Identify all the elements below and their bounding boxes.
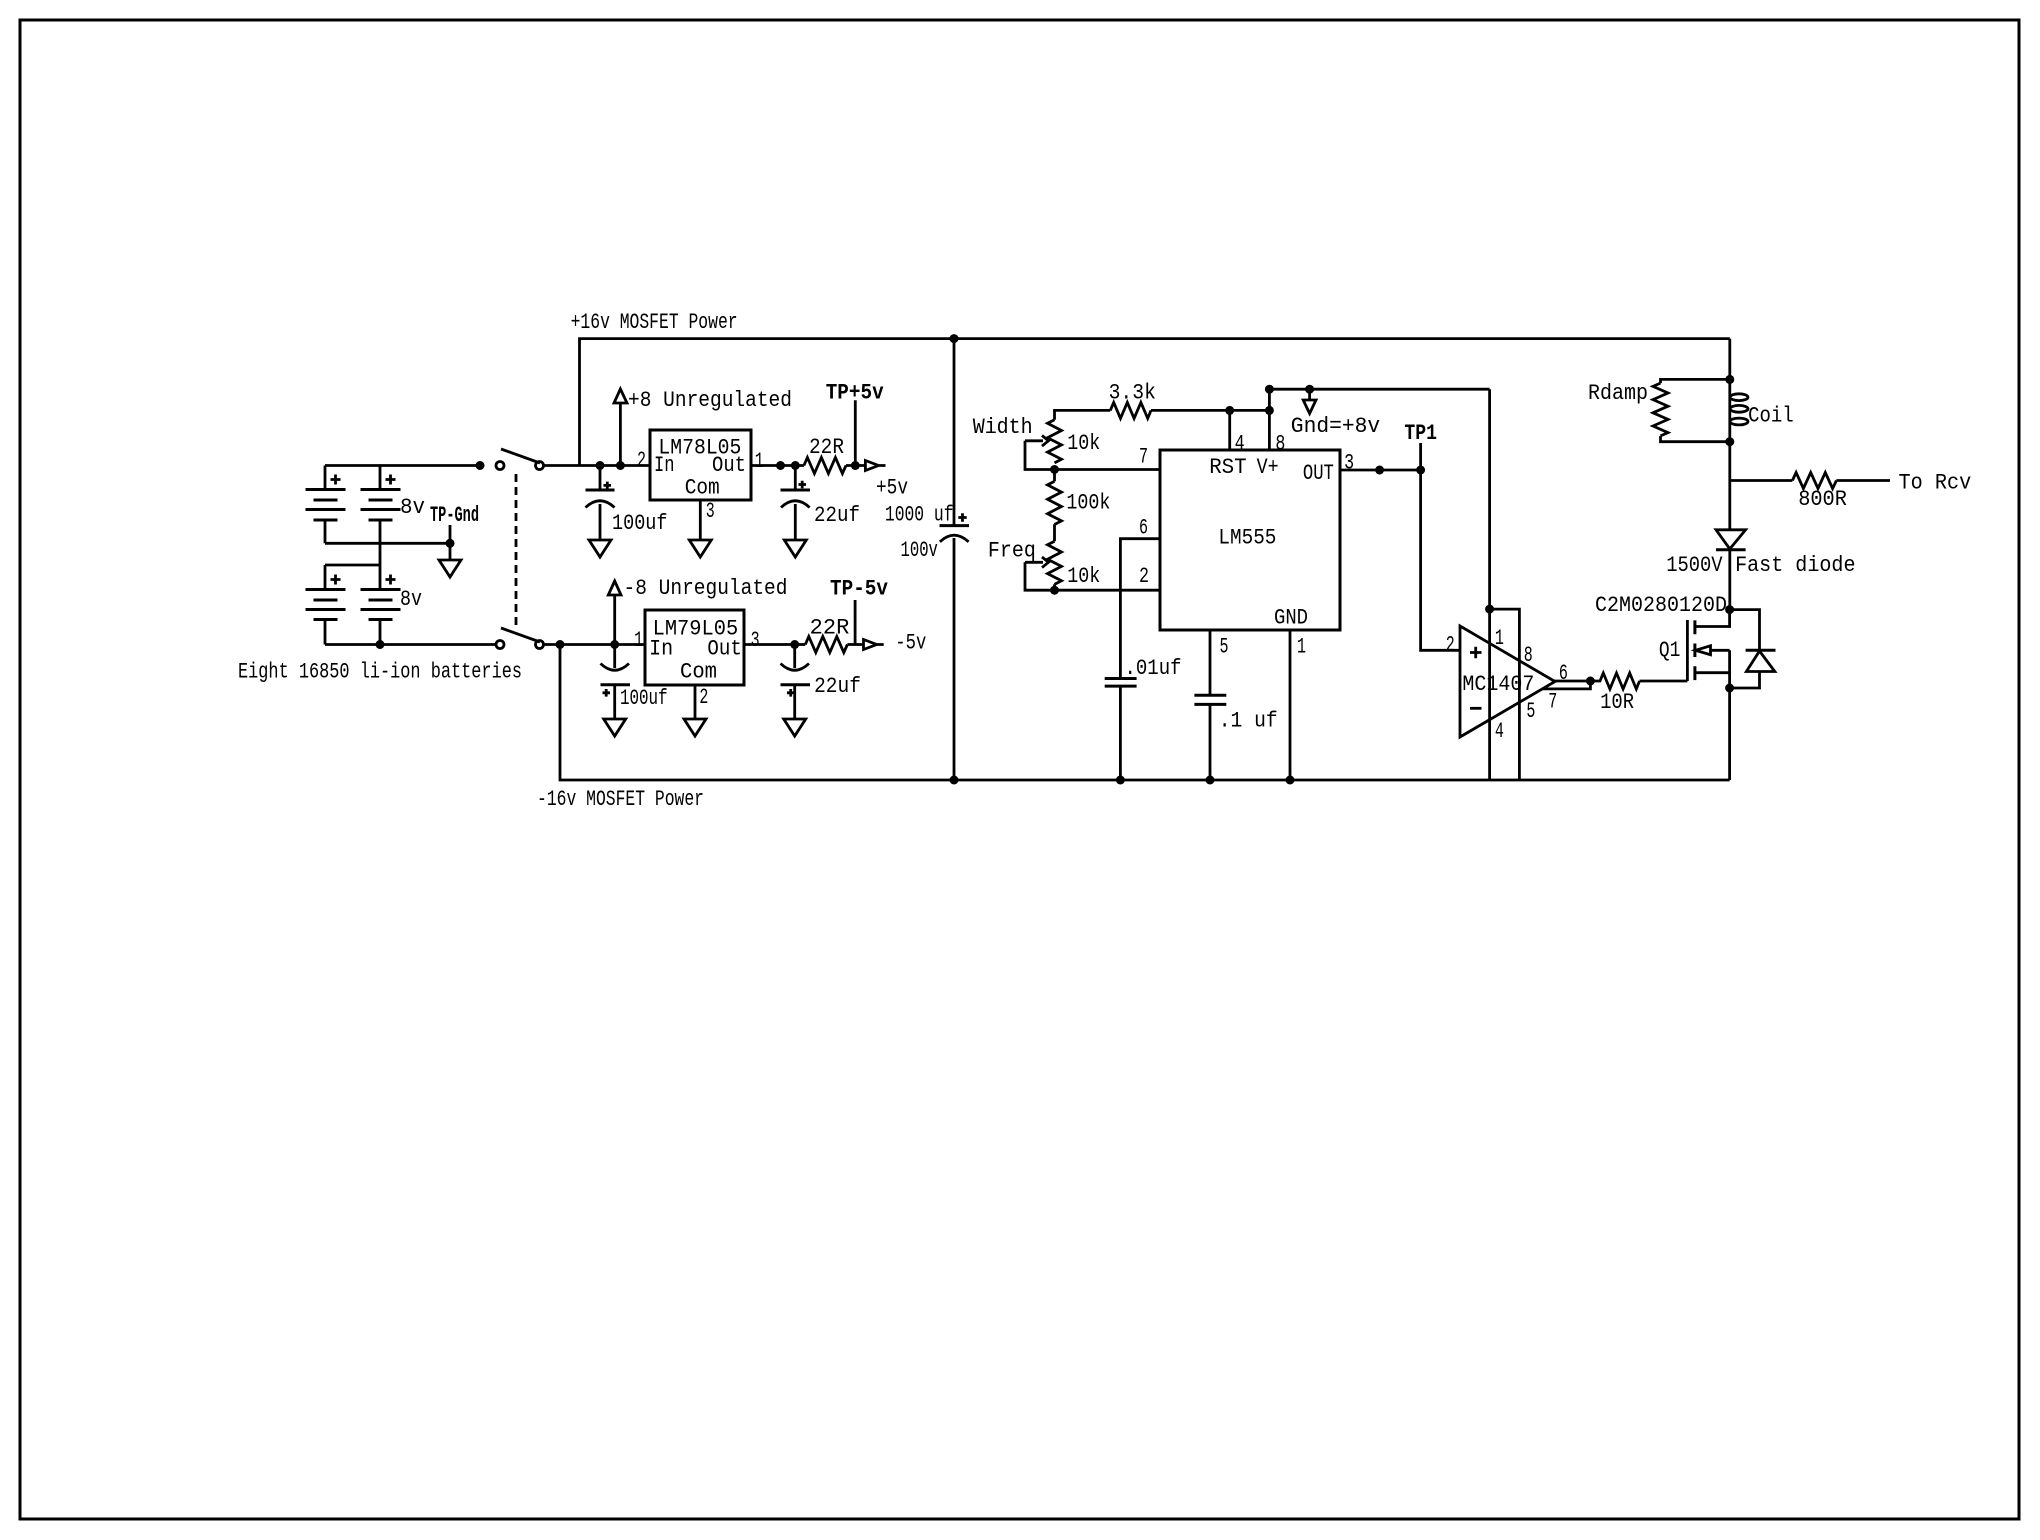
svg-text:GND: GND (1274, 606, 1308, 631)
svg-text:3: 3 (1344, 451, 1354, 476)
svg-text:5: 5 (1526, 699, 1535, 724)
battery BT1 (top-left 8v) (306, 466, 346, 544)
svg-text:2: 2 (699, 685, 708, 710)
svg-text:4: 4 (1235, 431, 1245, 456)
svg-text:TP+5v: TP+5v (826, 381, 884, 406)
node +5v output arrow (865, 461, 885, 471)
resistor R3 3.3k (1110, 402, 1151, 418)
wire TP-Gnd stub (449, 525, 452, 560)
inductor L1 Coil (1730, 379, 1748, 441)
svg-text:Com: Com (685, 476, 720, 501)
wire +16v rail drop to coil (1728, 339, 1731, 380)
svg-text:Fast diode: Fast diode (1735, 553, 1855, 578)
wire U2 Out (744, 643, 805, 646)
node coil bottom junction (1725, 437, 1734, 446)
wire pin 7 net (1055, 468, 1161, 471)
svg-text:-5v: -5v (895, 631, 926, 656)
wire battery plus bus (top) (325, 464, 480, 467)
wire R2 to -5v arrow (847, 643, 863, 646)
svg-text:Width: Width (973, 415, 1033, 440)
svg-text:Freq: Freq (988, 538, 1036, 563)
svg-text:22R: 22R (809, 435, 844, 460)
node C6 rail junction (1116, 776, 1125, 785)
transistor Q1 C2M0280120D MOSFET (1687, 610, 1729, 688)
svg-text:TP-5v: TP-5v (830, 577, 888, 602)
wire battery midpoint to TP-Gnd (325, 542, 450, 545)
node bot-in junction at -16v drop (556, 640, 565, 649)
net TP+5v test point (854, 400, 857, 465)
node pin1 rail junction (1286, 776, 1295, 785)
capacitor C3 100uf (input, polarized, inverted) (601, 645, 631, 720)
wire U2 Com to ground (694, 685, 697, 719)
pin 8 stub (U3 V+) (1269, 389, 1489, 450)
wire pin 2 net (1055, 589, 1161, 592)
resistor R6 Rdamp (1653, 379, 1730, 441)
svg-text:+8 Unregulated: +8 Unregulated (628, 388, 792, 413)
resistor R4 100k (1048, 470, 1062, 542)
svg-text:.01uf: .01uf (1125, 656, 1182, 681)
net -8 Unregulated (arrow) (608, 581, 621, 645)
wire 3.3k to pin4/pin8 (1151, 409, 1269, 412)
diode D2 body diode (1730, 610, 1776, 688)
capacitor C4 22uf (output, polarized, inverted) (781, 645, 811, 720)
pin 1 stub (U3 GND) (1289, 630, 1292, 780)
svg-text:10k: 10k (1067, 431, 1100, 456)
svg-text:Coil: Coil (1748, 403, 1794, 428)
ground (battery midpoint) (439, 560, 461, 577)
svg-text:2: 2 (637, 448, 646, 473)
potentiometer VR2 Freq 10k (1025, 541, 1062, 590)
wire switch mechanical link (dashed) (515, 474, 518, 625)
resistor R7 800R (1792, 473, 1836, 489)
capacitor C1 100uf (input, polarized) (586, 466, 615, 541)
svg-text:22R: 22R (810, 616, 850, 641)
node coil top junction (1725, 375, 1734, 384)
node bottom bus junction (376, 640, 385, 649)
battery BT2 (top-right 8v) (361, 466, 401, 566)
wire R1 to +5v arrow (846, 464, 865, 467)
svg-text:8: 8 (1275, 431, 1285, 456)
svg-text:OUT: OUT (1303, 461, 1334, 486)
svg-text:Rdamp: Rdamp (1588, 381, 1648, 406)
svg-text:7: 7 (1139, 445, 1148, 470)
svg-text:Q1: Q1 (1659, 638, 1681, 663)
battery BT3 (bottom-left 8v) (306, 565, 346, 645)
svg-text:7: 7 (1548, 689, 1557, 714)
svg-text:1000 uf: 1000 uf (885, 503, 954, 528)
svg-text:Eight 16850 li-ion batteries: Eight 16850 li-ion batteries (238, 660, 522, 685)
ground (C2) (784, 540, 806, 557)
svg-text:.1 uf: .1 uf (1219, 708, 1278, 733)
ground (U1 Com) (689, 540, 711, 557)
svg-text:1: 1 (634, 628, 643, 653)
svg-text:+5v: +5v (876, 476, 908, 501)
svg-text:8: 8 (1524, 643, 1533, 668)
label + (U4) (1470, 647, 1482, 659)
node TP-Gnd junction (446, 539, 455, 548)
switch SW1a (top pole) (496, 449, 544, 470)
node output junction (1586, 677, 1595, 686)
node OUT junction a (1375, 466, 1384, 475)
node C7 rail junction (1206, 776, 1215, 785)
svg-text:100uf: 100uf (620, 686, 668, 711)
svg-text:Out: Out (707, 637, 741, 662)
wire 800R to To Rcv (1836, 479, 1890, 482)
wire +16v MOSFET Power rail (580, 339, 1730, 466)
svg-text:TP1: TP1 (1404, 421, 1437, 446)
svg-text:6: 6 (1559, 661, 1568, 686)
svg-text:2: 2 (1139, 564, 1149, 589)
svg-text:+16v MOSFET Power: +16v MOSFET Power (571, 310, 738, 335)
svg-text:In: In (654, 453, 675, 478)
wire coil to To Rcv tap and diode (1728, 442, 1731, 530)
op-amp U1 LM78L05 regulator box (650, 430, 751, 500)
pin 5 stub (U3) (1209, 630, 1212, 695)
svg-text:1500V: 1500V (1666, 553, 1723, 578)
node out junction at C4 (790, 640, 799, 649)
node out junction at C2 (791, 461, 800, 470)
svg-text:3: 3 (751, 628, 760, 653)
svg-text:100k: 100k (1066, 490, 1110, 515)
node pin1 loop junction (1485, 605, 1494, 614)
node out junction a (776, 461, 785, 470)
battery BT4 (bottom-right 8v) (361, 565, 401, 645)
node pin8 corner junction (1265, 406, 1274, 415)
capacitor C7 .1 uf (1194, 695, 1226, 780)
node OUT junction at TP1 (1416, 466, 1425, 475)
capacitor C5 1000uf 100v (bulk, polarized) (940, 339, 970, 780)
op-amp U4 MC1407 driver triangle (1460, 626, 1555, 737)
svg-text:800R: 800R (1798, 487, 1847, 512)
wire top switch to LM78L05 In (544, 464, 650, 467)
node VR2 wiper junction (1050, 586, 1059, 595)
wire pin 6 output (1553, 680, 1590, 683)
svg-text:V+: V+ (1257, 455, 1279, 480)
node TP+5v junction (851, 461, 860, 470)
diode D1 1500V fast diode (1716, 530, 1746, 610)
svg-text:22uf: 22uf (814, 674, 861, 699)
potentiometer VR1 Width 10k (1025, 420, 1062, 470)
ground (U2 Com) (684, 719, 706, 736)
label - (U4) (1470, 707, 1482, 710)
svg-text:10k: 10k (1067, 564, 1100, 589)
wire pin 7 output (1542, 681, 1590, 689)
pin 4 stub (U3 RST) (1228, 410, 1231, 450)
node top-in junction at +8 arrow (616, 461, 625, 470)
node 1000uf bottom junction (950, 776, 959, 785)
svg-text:10R: 10R (1600, 690, 1634, 715)
svg-text:-8 Unregulated: -8 Unregulated (624, 576, 788, 601)
wire Q1 source to -16v rail (1728, 688, 1731, 780)
ground (C4) (784, 719, 806, 736)
wire R5 to gate (1640, 680, 1688, 683)
svg-text:3: 3 (706, 499, 715, 524)
capacitor C2 22uf (output, polarized) (781, 466, 811, 541)
pin 6 net (U3) (1120, 539, 1160, 679)
wire battery minus bus (bottom) (325, 643, 496, 646)
wire pin8 loop (1490, 609, 1520, 780)
net Gnd=+8v (arrow) (1303, 389, 1316, 413)
switch SW1b (bottom pole) (496, 628, 544, 649)
node 1000uf top junction (950, 334, 959, 343)
svg-text:Com: Com (680, 660, 717, 685)
wire pot chain top corner (1055, 410, 1111, 419)
node bot-in junction at 100uf (610, 640, 619, 649)
svg-text:5: 5 (1220, 635, 1229, 660)
svg-text:6: 6 (1139, 516, 1148, 541)
svg-text:100uf: 100uf (612, 511, 668, 536)
svg-text:-16v MOSFET Power: -16v MOSFET Power (537, 787, 704, 812)
node pin8 upper junction (1265, 385, 1274, 394)
resistor R2 22R (805, 637, 847, 653)
net TP1 test point (1419, 443, 1422, 470)
resistor R1 22R (804, 458, 846, 474)
node junction before top switch (476, 461, 485, 470)
wire bottom switch to LM79L05 In (544, 643, 645, 646)
wire TP1 to MC1407 +input (1421, 470, 1460, 650)
svg-text:1: 1 (1495, 626, 1504, 651)
svg-text:100v: 100v (901, 538, 938, 563)
ground (C3) (604, 719, 626, 736)
wire pin1/pin4 vertical (V+ feed) (1488, 389, 1491, 780)
svg-text:8v: 8v (400, 587, 422, 612)
node Q1 drain junction (1725, 605, 1734, 614)
node Gnd=+8v junction (1305, 385, 1314, 394)
net +8 Unregulated (arrow) (614, 389, 627, 466)
svg-text:Out: Out (712, 453, 746, 478)
svg-text:4: 4 (1495, 719, 1504, 744)
svg-text:To Rcv: To Rcv (1899, 471, 1972, 496)
svg-text:1: 1 (1297, 635, 1306, 660)
wire bottom pair top link (325, 564, 380, 567)
capacitor C6 .01uf (1105, 679, 1137, 781)
svg-text:3.3k: 3.3k (1109, 381, 1156, 406)
ground (C1) (589, 540, 611, 557)
wire To Rcv branch (1730, 479, 1793, 482)
svg-text:Gnd=+8v: Gnd=+8v (1291, 414, 1380, 439)
node pin4 junction (1225, 406, 1234, 415)
svg-text:8v: 8v (400, 495, 425, 520)
net TP-5v test point (854, 600, 857, 645)
svg-text:RST: RST (1209, 455, 1247, 480)
svg-text:2: 2 (1446, 632, 1455, 657)
wire U1 Out (751, 464, 804, 467)
resistor R5 10R (1590, 673, 1639, 689)
node Q1 source junction (1725, 684, 1734, 693)
node -5v output arrow (864, 640, 884, 650)
op-amp U3 LM555 timer box (1160, 450, 1340, 630)
svg-text:TP-Gnd: TP-Gnd (430, 503, 479, 528)
svg-text:MC1407: MC1407 (1462, 672, 1534, 697)
node VR1 wiper junction (1050, 465, 1059, 474)
wire -16v MOSFET Power rail (560, 645, 1730, 781)
svg-text:In: In (649, 637, 673, 662)
svg-text:LM555: LM555 (1218, 526, 1276, 551)
wire U1 Com to ground (699, 500, 702, 540)
svg-text:C2M0280120D: C2M0280120D (1595, 593, 1727, 618)
svg-text:1: 1 (755, 449, 764, 474)
wire OUT pin 3 net (1340, 469, 1421, 472)
node top-in junction at 100uf (596, 461, 605, 470)
svg-text:22uf: 22uf (814, 503, 860, 528)
op-amp U2 LM79L05 regulator box (645, 610, 744, 685)
